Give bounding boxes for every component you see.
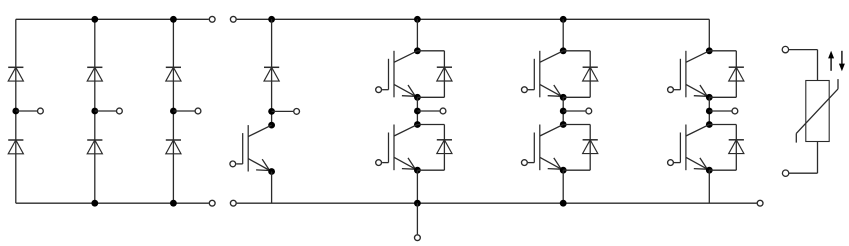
wire DC- bus (inverter bottom rail) xyxy=(237,202,757,204)
diode D1 xyxy=(8,67,23,81)
wire leg V emitter to DC- xyxy=(562,170,564,203)
wire phase U lead xyxy=(417,110,439,112)
diode D4 xyxy=(87,140,102,154)
wire D14 branch vertical xyxy=(735,125,737,171)
wire leg W emitter to DC- xyxy=(708,170,710,203)
wire D11 branch top xyxy=(563,50,590,52)
resistor R1 nonlinearity stroke xyxy=(796,79,838,143)
wire leg U midpoint xyxy=(416,97,418,124)
wire leg U collector feed xyxy=(416,19,418,51)
wire D9 branch top xyxy=(417,50,444,52)
wire DC+ rail (rectifier top) xyxy=(16,18,209,20)
wire phase V lead xyxy=(563,110,585,112)
wire rectifier leg 2 upper xyxy=(94,19,96,111)
junction Q1 collector xyxy=(414,47,421,54)
wire D11 branch vertical xyxy=(589,51,591,98)
node phase U xyxy=(414,108,421,115)
wire leg W collector feed xyxy=(708,19,710,51)
junction Q4 emitter xyxy=(560,167,567,174)
junction leg U bottom rail xyxy=(414,200,421,207)
terminal inverter DC- input xyxy=(230,200,236,206)
wire D12 branch bottom xyxy=(563,169,590,171)
terminal Q7 gate xyxy=(230,161,236,167)
junction brake IGBT emitter xyxy=(268,168,275,175)
junction Q4 collector xyxy=(560,121,567,128)
wire brake leg upper xyxy=(271,19,273,125)
terminal N (brake return) xyxy=(415,235,421,241)
wire brake terminal lead xyxy=(272,110,294,112)
terminal phase W output xyxy=(732,108,738,114)
wire D10 branch top xyxy=(417,124,444,126)
wire D10 branch vertical xyxy=(443,125,445,171)
terminal Q2 gate xyxy=(376,160,382,166)
terminal inverter DC+ input xyxy=(230,16,236,22)
junction rectifier bottom leg 2 xyxy=(91,200,98,207)
wire leg U emitter to DC- xyxy=(416,170,418,203)
wire leg W midpoint xyxy=(708,97,710,124)
terminal phase V output xyxy=(586,108,592,114)
junction node L2 xyxy=(91,108,98,115)
junction Q3 emitter xyxy=(560,94,567,101)
junction Q5 collector xyxy=(706,47,713,54)
arrow up (temperature) xyxy=(828,51,834,71)
terminal Q5 gate xyxy=(668,87,674,93)
wire D12 branch top xyxy=(563,124,590,126)
wire D9 branch vertical xyxy=(443,51,445,98)
terminal L3 AC input xyxy=(195,108,201,114)
wire D9 branch bottom xyxy=(417,96,444,98)
junction rectifier bottom leg 3 xyxy=(170,200,177,207)
junction leg V top rail xyxy=(560,16,567,23)
terminal thermistor pin 1 xyxy=(782,46,788,52)
wire phase W lead xyxy=(709,110,731,112)
junction leg U top rail xyxy=(414,16,421,23)
wire N terminal lead xyxy=(416,203,418,234)
junction rectifier top leg 3 xyxy=(170,16,177,23)
junction Q5 emitter xyxy=(706,94,713,101)
diode D2 xyxy=(8,140,23,154)
terminal Q6 gate xyxy=(668,160,674,166)
wire rectifier leg 1 upper xyxy=(15,19,17,111)
junction brake leg top xyxy=(268,16,275,23)
diode D9 freewheel xyxy=(437,67,452,81)
junction Q1 emitter xyxy=(414,94,421,101)
junction Q2 collector xyxy=(414,121,421,128)
wire L2 lead xyxy=(95,110,116,112)
wire leg V collector feed xyxy=(562,19,564,51)
transistor Q5 high-side IGBT xyxy=(674,51,709,98)
wire D10 branch bottom xyxy=(417,169,444,171)
junction brake IGBT collector xyxy=(268,122,275,129)
diode D5 xyxy=(166,67,181,81)
wire rectifier leg 2 lower xyxy=(94,111,96,203)
terminal DC- right xyxy=(757,200,763,206)
terminal L2 AC input xyxy=(117,108,123,114)
diode D6 xyxy=(166,140,181,154)
transistor Q4 low-side IGBT xyxy=(528,125,563,171)
wire DC- rail (rectifier bottom) xyxy=(16,202,209,204)
diode D13 freewheel xyxy=(729,67,744,81)
wire D12 branch vertical xyxy=(589,125,591,171)
terminal rectifier DC- output xyxy=(209,200,215,206)
node brake midpoint xyxy=(268,108,275,115)
terminal Q4 gate xyxy=(522,160,528,166)
wire rectifier leg 1 lower xyxy=(15,111,17,203)
node phase V xyxy=(560,108,567,115)
wire leg V midpoint xyxy=(562,97,564,124)
terminal Q3 gate xyxy=(522,87,528,93)
wire D13 branch vertical xyxy=(735,51,737,98)
junction node L3 xyxy=(170,108,177,115)
diode D10 freewheel xyxy=(437,140,452,154)
diode D12 freewheel xyxy=(583,140,598,154)
wire D13 branch bottom xyxy=(709,96,736,98)
terminal Q1 gate xyxy=(376,87,382,93)
transistor Q3 high-side IGBT xyxy=(528,51,563,98)
node phase W xyxy=(706,108,713,115)
resistor R1 NTC thermistor body xyxy=(806,81,829,142)
transistor Q1 high-side IGBT xyxy=(382,51,417,98)
terminal L1 AC input xyxy=(38,108,44,114)
wire D13 branch top xyxy=(709,50,736,52)
junction Q6 emitter xyxy=(706,167,713,174)
wire L3 lead xyxy=(173,110,194,112)
wire thermistor top lead xyxy=(789,50,818,81)
terminal thermistor pin 2 xyxy=(782,170,788,176)
diode D11 freewheel xyxy=(583,67,598,81)
transistor Q2 low-side IGBT xyxy=(382,125,417,171)
diode D14 freewheel xyxy=(729,140,744,154)
junction rectifier top leg 2 xyxy=(91,16,98,23)
diode D7 brake xyxy=(264,67,279,81)
terminal phase U output xyxy=(440,108,446,114)
junction Q2 emitter xyxy=(414,167,421,174)
terminal rectifier DC+ output xyxy=(209,16,215,22)
terminal brake resistor xyxy=(294,109,300,115)
junction node L1 xyxy=(12,108,19,115)
wire L1 lead xyxy=(16,110,37,112)
diode D3 xyxy=(87,67,102,81)
wire D14 branch bottom xyxy=(709,169,736,171)
junction leg V bottom rail xyxy=(560,200,567,207)
wire brake emitter to DC- xyxy=(271,172,273,204)
wire DC+ bus (inverter top rail) xyxy=(237,18,710,20)
wire rectifier leg 3 lower xyxy=(172,111,174,203)
wire thermistor bottom lead xyxy=(789,142,818,174)
wire D14 branch top xyxy=(709,124,736,126)
junction Q3 collector xyxy=(560,47,567,54)
arrow down (resistance) xyxy=(839,51,845,71)
junction Q6 collector xyxy=(706,121,713,128)
transistor Q6 low-side IGBT xyxy=(674,125,709,171)
wire D11 branch bottom xyxy=(563,96,590,98)
transistor Q7 brake IGBT xyxy=(236,125,271,171)
wire rectifier leg 3 upper xyxy=(172,19,174,111)
